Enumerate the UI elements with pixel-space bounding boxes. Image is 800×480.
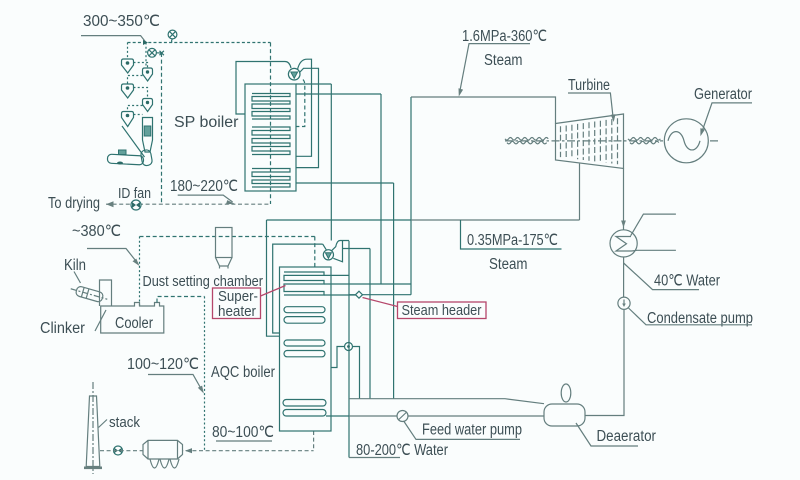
label Kiln: [64, 257, 86, 274]
svg-text:Turbine: Turbine: [568, 77, 610, 94]
svg-text:Kiln: Kiln: [64, 257, 86, 274]
label 180~220C: [170, 178, 238, 195]
label AQC boiler: [211, 364, 275, 381]
AQC coil group 4 economizer: [283, 400, 326, 417]
label Clinker: [40, 320, 85, 337]
wire feedwater line: [349, 415, 544, 417]
svg-text:Generator: Generator: [694, 86, 752, 103]
steam header node: [349, 291, 363, 298]
wire flue to stack: [100, 450, 314, 452]
riser vessel: [143, 118, 153, 153]
svg-text:AQC boiler: AQC boiler: [211, 364, 275, 381]
label Condensate pump: [647, 310, 753, 327]
dust setting chamber: [216, 228, 233, 269]
label Dust setting chamber: [143, 273, 264, 290]
wire superheater outlet 3: [324, 294, 356, 296]
wire circulation loop: [331, 347, 360, 399]
leader Feed water pump: [404, 422, 520, 440]
leader 1.6MPa: [458, 44, 530, 97]
wire cyclone feed D: [145, 43, 147, 69]
wire SP to AQC drum: [330, 84, 332, 241]
SP boiler drum: [288, 68, 300, 80]
leader Clinker: [95, 310, 106, 331]
turbine Q1: [556, 114, 624, 169]
wire AQC drum steam line: [343, 248, 371, 250]
ID fan: [131, 200, 141, 210]
leader 40C Water: [624, 263, 699, 290]
wire feedwater riser: [348, 241, 350, 458]
SP coil group 1: [252, 94, 290, 120]
cyclone B: [122, 84, 134, 98]
label 1.6MPa-360C: [462, 28, 547, 45]
label 300~350C: [83, 13, 160, 30]
leader 80~100C: [216, 440, 272, 442]
svg-text:Feed water pump: Feed water pump: [422, 422, 522, 439]
label Feed water pump: [422, 422, 522, 439]
wire lp steam bus: [267, 219, 580, 221]
cyclone E: [143, 99, 153, 112]
svg-text:To drying: To drying: [48, 195, 100, 212]
wire SP gas downflow: [270, 43, 272, 205]
SP casing: [245, 84, 296, 191]
wire AQC drum right loop: [333, 241, 342, 262]
svg-text:Steam header: Steam header: [402, 302, 482, 319]
wire SP steam out: [296, 93, 381, 95]
SP drum downcomer dashed: [296, 80, 305, 127]
SP drum riser pipe 1: [296, 59, 312, 156]
shaft hatching right: [628, 138, 660, 144]
label Steam lp: [489, 256, 528, 273]
wire main steam riser: [410, 97, 412, 295]
SP downcomer outer pipe: [236, 62, 291, 115]
SP coil group 2: [252, 127, 290, 155]
generator G1: [664, 119, 708, 163]
label 40C Water: [654, 273, 720, 290]
SP drum riser pipe 2: [296, 68, 319, 167]
wire cyclone D-B: [128, 76, 143, 85]
wire SP lp down: [393, 183, 395, 399]
SP coil group 3: [252, 169, 290, 188]
svg-text:Steam: Steam: [484, 52, 523, 69]
leader line 300~350C: [81, 36, 146, 43]
svg-text:80~100℃: 80~100℃: [212, 424, 274, 441]
label ~380C: [72, 223, 121, 240]
leader 80-200C Water: [349, 457, 400, 459]
cyclone A: [122, 59, 134, 73]
wire cooling water inlet: [631, 214, 676, 236]
leader Generator: [700, 103, 752, 136]
label 100~120C: [127, 356, 199, 373]
label 0.35MPa-175C: [467, 232, 558, 249]
wire SP lp out: [296, 182, 394, 184]
chute line: [122, 126, 145, 157]
wire cyclone C-riser: [134, 114, 143, 116]
svg-text:Clinker: Clinker: [40, 320, 85, 337]
leader Kiln: [74, 272, 81, 284]
wire superheater outlet 1: [324, 274, 349, 276]
AQC casing: [280, 267, 332, 431]
label Turbine: [568, 77, 610, 94]
valve bypass: [148, 48, 164, 57]
wire cyclone E-C: [128, 106, 143, 112]
svg-text:40℃ Water: 40℃ Water: [654, 273, 720, 290]
leader Steam header: [363, 298, 398, 307]
wire cooler vent: [157, 297, 205, 303]
deaerator vent: [561, 384, 571, 402]
valve top: [168, 30, 177, 42]
wire deaerator steam line: [349, 399, 544, 404]
leader ~380C: [87, 249, 140, 267]
wire AQC drum steam right: [332, 241, 349, 251]
leader stack: [99, 420, 108, 428]
label 80~100C: [212, 424, 274, 441]
label SP boiler: [174, 114, 239, 131]
svg-text:0.35MPa-175℃: 0.35MPa-175℃: [467, 232, 558, 249]
AQC drum: [323, 250, 333, 260]
stack fan: [114, 446, 123, 455]
label ID fan: [118, 186, 151, 202]
wire cooler gas riser: [139, 237, 141, 306]
svg-text:180~220℃: 180~220℃: [170, 178, 238, 195]
shaft centerline: [505, 140, 719, 142]
kiln inlet housing: [107, 149, 152, 166]
svg-text:ID fan: ID fan: [118, 186, 151, 202]
label Cooler: [115, 315, 153, 332]
dust collector: [143, 440, 192, 468]
label To drying: [48, 195, 100, 212]
leader Condensate pump: [629, 308, 753, 325]
wire condensate down 2: [585, 309, 624, 415]
wire cyclone feed A: [127, 43, 129, 60]
label stack: [109, 414, 140, 431]
leader 180~220C: [178, 195, 235, 204]
svg-text:heater: heater: [218, 303, 256, 320]
wire cooling water outlet: [632, 249, 676, 252]
label box Super-heater: [213, 288, 261, 320]
wire header to riser: [363, 294, 412, 296]
AQC outer downcomer: [267, 220, 280, 336]
AQC coil group 2: [284, 307, 325, 324]
label box Steam header: [398, 302, 487, 319]
AQC coil group 1 superheater: [284, 272, 324, 295]
svg-text:~380℃: ~380℃: [72, 223, 121, 240]
wire AQC gas inlet: [314, 237, 316, 268]
wire hot gas to AQC: [140, 236, 315, 238]
wire ID fan line: [106, 201, 271, 207]
svg-text:300~350℃: 300~350℃: [83, 13, 160, 30]
svg-text:Deaerator: Deaerator: [597, 428, 657, 445]
cyclone D: [143, 68, 153, 81]
wire cyclone A-D: [134, 63, 148, 69]
svg-text:80-200℃ Water: 80-200℃ Water: [356, 442, 448, 459]
svg-text:Cooler: Cooler: [115, 315, 153, 332]
svg-text:100~120℃: 100~120℃: [127, 356, 199, 373]
leader Turbine: [568, 93, 616, 122]
label Generator: [694, 86, 752, 103]
condensate pump P1: [618, 297, 630, 309]
wire turbine exhaust: [621, 169, 626, 230]
condenser E1: [610, 230, 637, 257]
leader Deaerator: [576, 423, 638, 446]
label Steam hp: [484, 52, 523, 69]
wire economizer inlet: [326, 415, 349, 417]
junction arrow: [143, 40, 148, 45]
AQC coil group 3: [284, 340, 325, 357]
wire main steam top: [411, 97, 556, 124]
wire AQC gas outlet: [313, 431, 315, 451]
circulation pump: [345, 343, 353, 351]
cooler body: [101, 303, 164, 334]
shaft hatching left: [505, 138, 548, 144]
stack: [84, 396, 102, 469]
leader 100~120C: [148, 375, 204, 394]
wire duct to ID fan: [161, 53, 163, 204]
wire header riser mid: [369, 249, 371, 399]
cyclone C: [122, 112, 134, 127]
svg-text:1.6MPa-360℃: 1.6MPa-360℃: [462, 28, 547, 45]
leader 0.35MPa: [461, 220, 562, 249]
label 80-200C Water: [356, 442, 448, 459]
svg-text:SP boiler: SP boiler: [174, 114, 239, 131]
wire condensate down 1: [623, 257, 625, 297]
kiln hood: [100, 280, 112, 306]
wire gas dashed top: [128, 42, 271, 44]
stack centerline: [92, 382, 94, 474]
SP casing top extension: [296, 83, 331, 85]
label Deaerator: [597, 428, 657, 445]
wire superheater outlet 2: [324, 283, 411, 285]
wire lp steam up to turbine: [579, 164, 581, 220]
turbine blades: [561, 118, 618, 164]
wire AQC drum feed left: [273, 244, 327, 333]
wire cyclone B-E: [134, 88, 148, 99]
feed water pump P2: [397, 411, 408, 422]
wire bypass down to stack: [204, 297, 206, 451]
deaerator D1: [544, 404, 585, 426]
leader Super-heater: [261, 286, 286, 297]
svg-text:Steam: Steam: [489, 256, 528, 273]
svg-text:stack: stack: [109, 414, 140, 431]
wire SP steam down: [380, 94, 382, 284]
kiln body: [69, 284, 108, 304]
